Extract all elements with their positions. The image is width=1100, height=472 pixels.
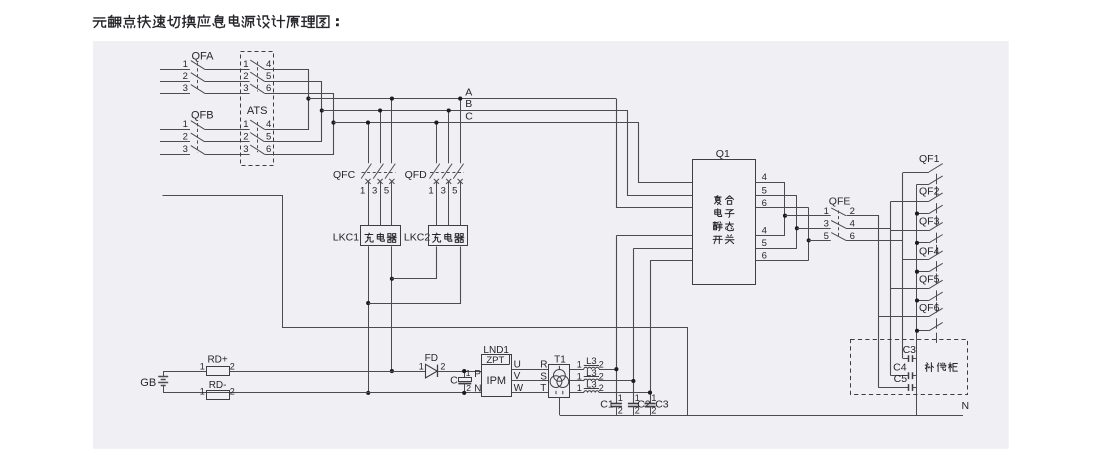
QFC pole 5 drop from bus A — [391, 99, 393, 164]
svg-text:2: 2 — [599, 383, 604, 393]
QF2 neutral pole load stub — [936, 215, 938, 225]
svg-text:6: 6 — [266, 144, 271, 155]
junction LKC1+ / P rail — [390, 369, 394, 373]
LKC1 negative output wire to N rail — [368, 246, 370, 393]
junction LKC1- / crosstie — [366, 301, 370, 305]
ATS QFA pole 2 blade — [250, 72, 264, 81]
bus C drop to Q1 — [639, 123, 693, 183]
QFC mechanical link — [362, 172, 396, 174]
ATS QFB-side mechanical link — [257, 122, 259, 152]
svg-text:1: 1 — [200, 361, 205, 371]
QFB mechanical link — [197, 123, 199, 152]
wire ATS QFA pin 6 to bus C — [265, 94, 334, 155]
bus B drop to Q1 — [628, 111, 693, 196]
ATS QFB pole 2 blade — [250, 133, 264, 142]
bus B — [322, 110, 628, 112]
QFD pole tap junction on bus A — [458, 97, 462, 101]
QFD pole tap junction on bus B — [447, 108, 451, 112]
svg-text:3: 3 — [441, 185, 446, 196]
neutral N line — [560, 415, 963, 417]
junction C / P rail — [462, 369, 466, 373]
junction QF6 neutral tap / bus — [915, 329, 919, 333]
QFD mechanical link — [430, 172, 464, 174]
charger LKC2 box — [429, 226, 468, 246]
QFC pole 1 drop from bus C — [368, 123, 370, 164]
QF2 neutral pole blade — [929, 205, 943, 213]
svg-text:FD: FD — [425, 353, 438, 364]
QFA pole 2 blade — [191, 73, 205, 82]
junction QF5 neutral tap / bus — [915, 298, 919, 302]
svg-text:QF1: QF1 — [919, 153, 940, 165]
svg-text:L3: L3 — [586, 368, 597, 379]
QF5 phase pole blade — [929, 280, 943, 288]
T1 neutral lead to N line — [559, 397, 561, 415]
QFC pole tap junction on bus C — [366, 121, 370, 125]
Q1 lower pin 4 stub — [755, 235, 785, 237]
wire QFE pin 2 to feeder 1 — [847, 216, 879, 388]
svg-text:C2: C2 — [637, 399, 651, 411]
QF2 neutral tap — [917, 213, 929, 215]
capacitor C1 symbol — [611, 403, 622, 405]
QF5 neutral pole blade — [929, 292, 943, 300]
Q1 output tie vertical 3 — [808, 208, 810, 261]
LKC2 positive output crosstie — [392, 247, 437, 279]
svg-text:2: 2 — [243, 71, 248, 82]
LND1 ZPT compartment divider — [481, 364, 509, 366]
svg-text:2: 2 — [230, 386, 235, 396]
svg-text:C4: C4 — [893, 361, 907, 373]
fuse RD+ body — [207, 367, 230, 376]
wire Q1 output to QFE pole 1 — [785, 215, 831, 217]
QFE pole 5 blade — [831, 233, 846, 241]
svg-text:Q1: Q1 — [716, 148, 730, 160]
QFD pole 5 blade and contact cross — [453, 164, 463, 179]
ATS QFA pole 3 blade — [250, 84, 264, 93]
LKC1 positive output wire to P rail — [391, 246, 393, 371]
svg-text:C3: C3 — [903, 344, 917, 356]
charger LKC1 text 充电器 — [365, 233, 396, 242]
junction Q1 output 1 / QFE feed — [783, 214, 787, 218]
svg-text:3: 3 — [243, 83, 248, 94]
svg-text:2: 2 — [183, 71, 188, 82]
QFC pole 3 drop from bus B — [380, 111, 382, 164]
svg-text:5: 5 — [762, 238, 767, 249]
svg-text:2: 2 — [466, 383, 471, 393]
static switch Q1 box — [693, 160, 756, 285]
capacitor C5 symbol — [878, 387, 909, 389]
capacitor C2 symbol — [628, 403, 639, 405]
svg-text:QF2: QF2 — [919, 186, 940, 198]
svg-text:4: 4 — [762, 225, 767, 236]
svg-text:3: 3 — [372, 185, 377, 196]
svg-text:1: 1 — [360, 185, 365, 196]
ATS QFB pole 1 blade — [250, 120, 264, 129]
svg-text:C: C — [450, 374, 458, 386]
svg-text:1: 1 — [824, 206, 829, 217]
wire T1 to inductor L3 row 2 — [570, 380, 584, 382]
QFD pole tap junction on bus C — [434, 121, 438, 125]
QF6 phase pole load stub — [936, 318, 938, 328]
svg-text:3: 3 — [183, 144, 188, 155]
QF4 neutral pole blade — [929, 263, 943, 271]
bus A — [308, 98, 616, 100]
svg-text:4: 4 — [266, 119, 271, 130]
svg-text:ZPT: ZPT — [486, 355, 504, 366]
QF1 phase feed wire — [903, 172, 929, 174]
QF3 neutral pole load stub — [936, 245, 938, 255]
QFC pole tap junction on bus A — [390, 97, 394, 101]
wire V to transformer T1 — [512, 380, 549, 382]
svg-text:QF4: QF4 — [919, 246, 940, 258]
Q1 output tie vertical 1 — [784, 182, 786, 235]
QFA pole 1 wire to ATS — [205, 69, 250, 71]
fuse RD- body — [207, 391, 230, 400]
svg-text:5: 5 — [824, 231, 829, 242]
svg-text:2: 2 — [440, 362, 445, 372]
svg-text:1: 1 — [577, 372, 582, 382]
QFC pole 3 blade and contact cross — [373, 164, 383, 179]
wire P rail fuse to diode FD — [229, 371, 426, 373]
neutral distribution bus — [916, 184, 918, 415]
svg-text:2: 2 — [599, 360, 604, 370]
QF6 phase feed wire — [878, 316, 929, 318]
QF3 phase pole blade — [929, 222, 943, 230]
QFD pole 3 drop from bus B — [448, 111, 450, 164]
capacitor C symbol — [464, 371, 466, 377]
wire Q1 output to QFE pole 5 — [809, 240, 831, 242]
QF4 phase pole load stub — [936, 261, 938, 271]
transformer T1 box — [549, 365, 570, 398]
QF4 phase feed wire — [903, 259, 929, 261]
QFC pole 5 wire to LKC1 — [391, 181, 393, 226]
wire P rail battery+ to fuse RD+ — [163, 371, 206, 373]
QFD pole 5 wire to LKC2 — [460, 181, 462, 226]
wire inductor to node row 3 — [599, 392, 650, 394]
svg-text:1: 1 — [183, 119, 188, 130]
svg-text:QFC: QFC — [333, 169, 356, 181]
svg-text:5: 5 — [762, 186, 767, 197]
wire ATS QFA pin 5 to bus B — [265, 82, 322, 142]
svg-text:5: 5 — [452, 185, 457, 196]
ATS QFB pole 3 blade — [250, 145, 264, 154]
QF4 phase pole blade — [929, 251, 943, 259]
wire inductor to node row 2 — [599, 380, 633, 382]
svg-text:LKC2: LKC2 — [404, 231, 430, 243]
capacitor C3 symbol — [645, 403, 656, 405]
wire W to transformer T1 — [512, 392, 549, 394]
svg-text:1: 1 — [200, 386, 205, 396]
riser phase R to Q1 lower input — [616, 236, 618, 404]
Q1 lower pin 6 stub — [755, 260, 808, 262]
svg-text:P: P — [474, 369, 481, 380]
QFB pole 1 wire to ATS — [205, 129, 250, 131]
wire N rail battery- to LND1 N pin — [163, 392, 481, 394]
bus A drop to Q1 — [617, 99, 693, 208]
QFA pole 3 blade — [191, 85, 205, 94]
svg-text:S: S — [540, 371, 547, 382]
QFB pole 3 wire to ATS — [205, 154, 250, 156]
QFA pole 2 input stub — [160, 81, 190, 83]
svg-text:QFD: QFD — [405, 169, 428, 181]
battery GB symbol — [163, 371, 165, 377]
junction riser / filter row 3 — [648, 391, 652, 395]
svg-text:QFE: QFE — [829, 195, 851, 207]
QF5 phase pole load stub — [936, 290, 938, 300]
QFC pole 5 blade and contact cross — [385, 164, 395, 179]
wire inductor to node row 1 — [599, 369, 616, 371]
svg-text:3: 3 — [824, 219, 829, 230]
Q1 text 复合电子静态开关 — [714, 196, 733, 205]
svg-text:ATS: ATS — [247, 105, 268, 117]
wire T1 to inductor L3 row 3 — [570, 392, 584, 394]
QF5 neutral pole load stub — [936, 302, 938, 312]
junction LKC1- / N rail — [366, 391, 370, 395]
junction Q1 output 2 / QFE feed — [795, 226, 799, 230]
junction QF3 neutral tap / bus — [915, 241, 919, 245]
QF3 neutral tap — [917, 242, 929, 244]
junction LKC1+ / crosstie — [390, 277, 394, 281]
QF1 phase pole load stub — [936, 174, 938, 184]
inverter LND1 box — [482, 355, 512, 397]
QF2 phase feed wire — [891, 201, 929, 203]
QF3 neutral pole blade — [929, 235, 943, 243]
svg-text:B: B — [465, 98, 472, 110]
QFA pole 2 wire to ATS — [205, 81, 250, 83]
compensation cabinet text 补偿柜 — [925, 363, 957, 372]
svg-text:QF3: QF3 — [919, 215, 940, 227]
svg-text:2: 2 — [230, 361, 235, 371]
svg-text:1: 1 — [577, 383, 582, 393]
svg-text:RD+: RD+ — [207, 354, 227, 365]
QF6 neutral pole load stub — [936, 333, 938, 343]
svg-text:6: 6 — [762, 251, 767, 262]
Q1 lower pin 5 stub — [755, 248, 797, 250]
QF5 neutral tap — [917, 300, 929, 302]
bus C — [334, 122, 639, 124]
QFB pole 2 wire to ATS — [205, 141, 250, 143]
capacitor C4 symbol — [891, 375, 909, 377]
compensation cabinet dashed box — [851, 340, 968, 395]
ATS enclosure (dashed) — [241, 52, 274, 166]
svg-text:5: 5 — [384, 185, 389, 196]
junction QF2 neutral tap / bus — [915, 212, 919, 216]
Q1 upper pin 6 stub — [755, 207, 808, 209]
feeder 2 vertical — [890, 202, 892, 376]
svg-text:C1: C1 — [600, 399, 614, 411]
svg-text:N: N — [962, 400, 970, 412]
svg-text:1: 1 — [243, 119, 248, 130]
Q1 upper pin 4 stub — [755, 182, 785, 184]
wire QFE pin 6 to feeder 3 — [846, 240, 903, 242]
svg-text:1: 1 — [466, 368, 471, 378]
QFB pole 3 blade — [191, 146, 205, 155]
svg-text:U: U — [514, 359, 521, 370]
riser phase T to Q1 lower input — [650, 261, 652, 404]
junction riser / filter row 2 — [631, 379, 635, 383]
svg-text:2: 2 — [183, 131, 188, 142]
svg-text:1: 1 — [618, 393, 623, 403]
svg-text:QFA: QFA — [192, 51, 215, 63]
QFC pole tap junction on bus B — [378, 108, 382, 112]
svg-text:R: R — [540, 360, 547, 371]
QFB pole 2 input stub — [160, 141, 190, 143]
inductor L3 row 3 coil — [584, 391, 599, 393]
junction bus B / ATS feed — [320, 108, 324, 112]
junction bus A / ATS feed — [306, 97, 310, 101]
svg-text:IPM: IPM — [487, 375, 507, 387]
svg-text:2: 2 — [618, 406, 623, 416]
svg-text:6: 6 — [266, 83, 271, 94]
ATS QFA pole 1 blade — [250, 60, 264, 69]
wire T1 to inductor L3 row 1 — [570, 369, 584, 371]
svg-text:1: 1 — [419, 362, 424, 372]
QFB pole 1 input stub — [160, 129, 190, 131]
QFE mechanical link — [838, 211, 840, 239]
QFD pole 5 drop from bus A — [460, 99, 462, 164]
QF3 phase pole load stub — [936, 233, 938, 243]
svg-text:5: 5 — [266, 71, 271, 82]
QFB pole 1 blade — [191, 121, 205, 130]
neutral input stub and run to N line — [163, 196, 688, 416]
QF1 neutral tap — [917, 184, 929, 186]
QFE pole 1 blade — [831, 208, 846, 216]
QF1 phase pole blade — [929, 164, 943, 172]
QF5 phase feed wire — [891, 288, 929, 290]
svg-text:3: 3 — [243, 144, 248, 155]
svg-text:C: C — [465, 110, 473, 122]
riser phase S to Q1 lower input — [633, 249, 635, 404]
junction riser / filter row 1 — [614, 367, 618, 371]
ATS QFA-side mechanical link — [257, 62, 259, 92]
QFD pole 1 drop from bus C — [436, 123, 438, 164]
svg-text:A: A — [465, 86, 472, 98]
inductor L3 row 1 coil — [584, 367, 599, 369]
QF4 neutral tap — [917, 271, 929, 273]
QF2 phase pole load stub — [936, 203, 938, 213]
transformer T1 windings — [550, 366, 569, 394]
QF3 phase feed wire — [891, 230, 929, 232]
wire P rail diode to LND1 P pin — [438, 371, 481, 373]
QFD pole 3 blade and contact cross — [442, 164, 452, 179]
QFE pole 3 blade — [831, 221, 846, 229]
QF6 neutral tap — [917, 330, 929, 332]
QF2 phase pole blade — [929, 193, 943, 201]
QF4 neutral pole load stub — [936, 274, 938, 284]
svg-text:1: 1 — [183, 59, 188, 70]
LKC2 negative output crosstie — [369, 247, 461, 304]
QFB pole 3 input stub — [160, 154, 190, 156]
QFD pole 1 blade and contact cross — [430, 164, 440, 179]
svg-text:LKC1: LKC1 — [333, 231, 359, 243]
QFC pole 1 blade and contact cross — [361, 164, 371, 179]
svg-text:GB: GB — [140, 377, 156, 389]
QF6 phase pole blade — [929, 308, 943, 316]
svg-text:C5: C5 — [894, 373, 908, 385]
svg-text:2: 2 — [243, 131, 248, 142]
QFD pole 1 wire to LKC2 — [436, 181, 438, 226]
svg-text:T: T — [540, 383, 546, 394]
Q1 output tie vertical 2 — [796, 195, 798, 248]
wire U to transformer T1 — [512, 369, 549, 371]
svg-text:4: 4 — [762, 172, 767, 183]
QFC pole 1 wire to LKC1 — [368, 181, 370, 226]
svg-text:5: 5 — [266, 131, 271, 142]
QFC pole 3 wire to LKC1 — [380, 181, 382, 226]
inductor L3 row 2 coil — [584, 379, 599, 381]
wire QFE pin 4 to feeder 2 — [846, 228, 891, 230]
charger LKC1 box — [361, 226, 401, 246]
svg-text:C3: C3 — [655, 399, 669, 411]
charger LKC2 text 充电器 — [432, 233, 463, 242]
svg-text:1: 1 — [428, 185, 433, 196]
QF1 neutral pole blade — [929, 176, 943, 184]
feeder 3 vertical — [902, 173, 904, 359]
svg-text:3: 3 — [183, 83, 188, 94]
diode FD symbol — [426, 364, 438, 378]
svg-text:1: 1 — [577, 360, 582, 370]
QFB pole 2 blade — [191, 133, 205, 142]
junction Q1 output 3 / QFE feed — [807, 238, 811, 242]
wire Q1 output to QFE pole 3 — [797, 228, 831, 230]
junction C / N rail — [462, 391, 466, 395]
QF1 neutral pole load stub — [936, 186, 938, 196]
QFD pole 3 wire to LKC2 — [448, 181, 450, 226]
QFA pole 1 input stub — [160, 69, 190, 71]
title 无触点快速切换应急电源设计原理图： — [93, 15, 338, 28]
diagram panel — [93, 41, 1009, 449]
junction QF4 neutral tap / bus — [915, 270, 919, 274]
svg-text:N: N — [474, 383, 481, 394]
QFA pole 3 input stub — [160, 93, 190, 95]
QFA mechanical link — [197, 63, 199, 92]
QFA pole 1 blade — [191, 61, 205, 70]
svg-text:1: 1 — [243, 59, 248, 70]
svg-text:RD-: RD- — [209, 380, 227, 391]
wire ATS QFA pin 4 to bus A — [265, 70, 309, 130]
Q1 upper pin 5 stub — [755, 195, 797, 197]
svg-text:QFB: QFB — [191, 109, 214, 121]
capacitor C3 symbol — [903, 358, 909, 360]
QF6 neutral pole blade — [929, 322, 943, 330]
svg-text:4: 4 — [266, 59, 271, 70]
junction bus C / ATS feed — [331, 121, 335, 125]
QFA pole 3 wire to ATS — [205, 93, 250, 95]
svg-text:6: 6 — [762, 198, 767, 209]
